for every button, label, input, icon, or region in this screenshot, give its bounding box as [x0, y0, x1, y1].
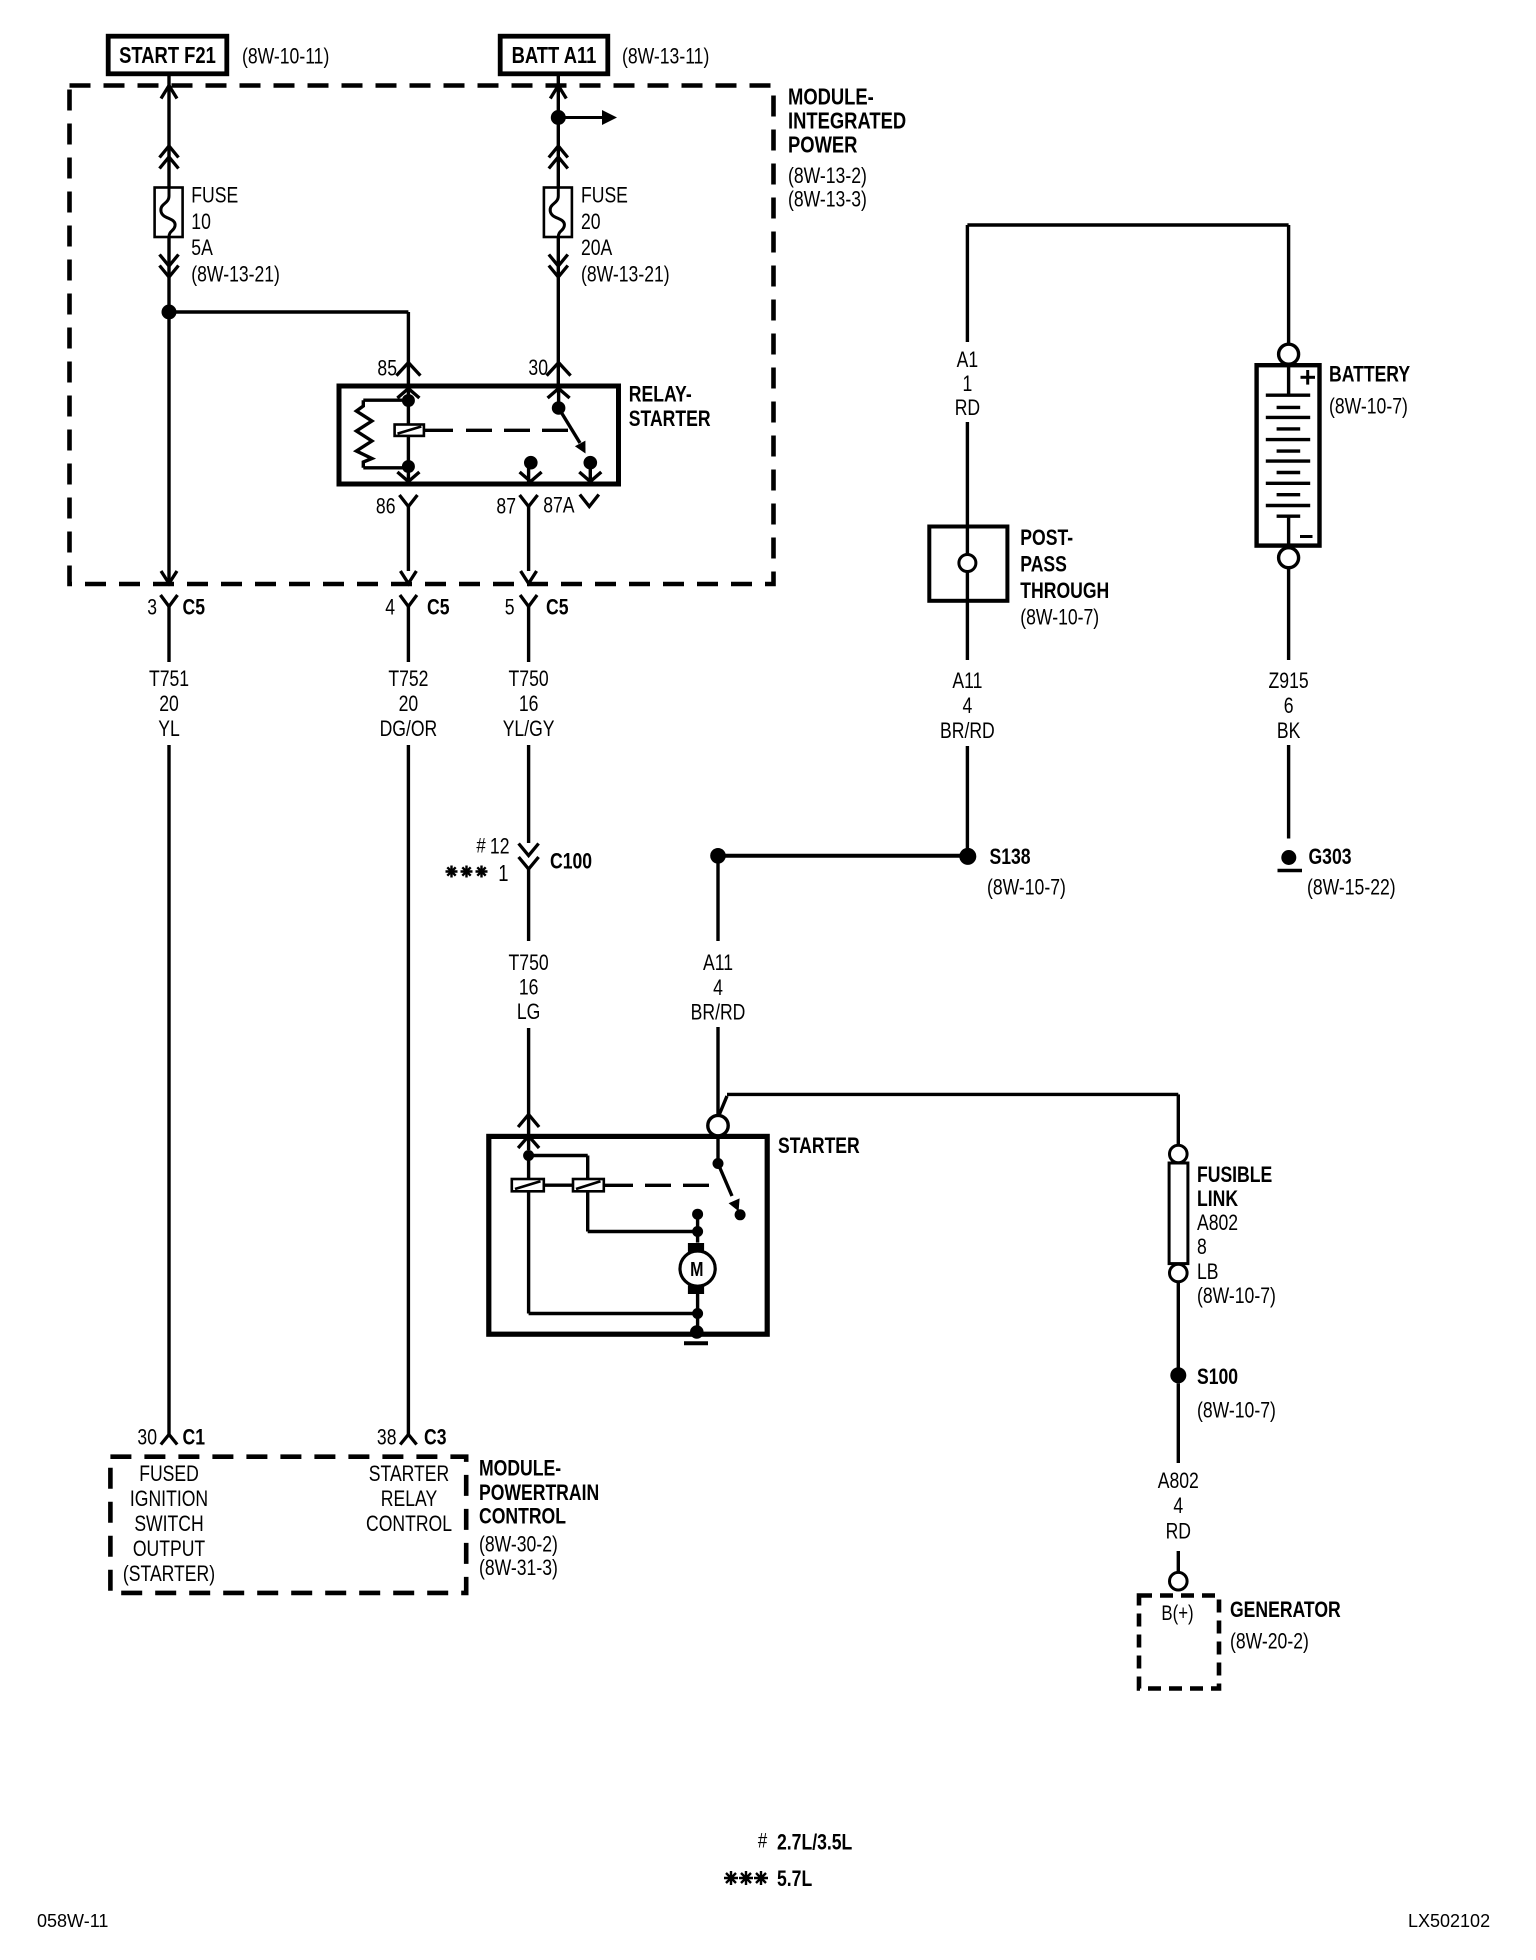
svg-text:POWERTRAIN: POWERTRAIN	[479, 1481, 599, 1505]
svg-text:(8W-13-2): (8W-13-2)	[788, 164, 867, 188]
svg-text:T751: T751	[149, 667, 189, 691]
svg-text:(STARTER): (STARTER)	[123, 1562, 215, 1586]
svg-text:C5: C5	[546, 596, 568, 620]
svg-text:DG/OR: DG/OR	[380, 717, 438, 741]
svg-text:STARTER: STARTER	[369, 1462, 449, 1486]
svg-text:C1: C1	[183, 1426, 205, 1450]
svg-text:1: 1	[963, 372, 973, 396]
svg-text:MODULE-: MODULE-	[788, 85, 874, 110]
svg-text:START F21: START F21	[119, 43, 216, 68]
svg-text:30: 30	[137, 1426, 157, 1450]
svg-text:(8W-13-3): (8W-13-3)	[788, 188, 867, 212]
svg-text:SWITCH: SWITCH	[134, 1512, 203, 1536]
svg-text:C5: C5	[183, 596, 205, 620]
svg-text:FUSE: FUSE	[191, 184, 238, 208]
svg-text:CONTROL: CONTROL	[366, 1512, 452, 1536]
svg-text:BATT A11: BATT A11	[512, 43, 597, 68]
svg-text:M: M	[690, 1259, 703, 1281]
svg-text:OUTPUT: OUTPUT	[133, 1537, 205, 1561]
svg-text:BR/RD: BR/RD	[940, 719, 995, 743]
svg-text:5.7L: 5.7L	[777, 1867, 812, 1891]
svg-text:87A: 87A	[543, 494, 575, 518]
svg-text:RELAY: RELAY	[381, 1487, 437, 1511]
svg-text:Z915: Z915	[1269, 669, 1309, 693]
svg-text:10: 10	[191, 210, 211, 234]
svg-text:FUSE: FUSE	[581, 184, 628, 208]
svg-text:STARTER: STARTER	[629, 407, 711, 431]
svg-text:PASS: PASS	[1020, 553, 1067, 577]
svg-text:16: 16	[519, 692, 539, 716]
svg-text:87: 87	[496, 495, 516, 519]
svg-text:5: 5	[505, 596, 515, 620]
svg-text:20: 20	[581, 210, 601, 234]
svg-text:B(+): B(+)	[1161, 1602, 1193, 1625]
svg-text:12: 12	[490, 835, 510, 859]
svg-text:LINK: LINK	[1197, 1187, 1239, 1211]
svg-text:85: 85	[377, 357, 397, 381]
svg-text:G303: G303	[1309, 845, 1352, 869]
svg-text:20A: 20A	[581, 236, 613, 260]
svg-text:YL: YL	[158, 717, 180, 741]
svg-text:IGNITION: IGNITION	[130, 1487, 208, 1511]
svg-text:30: 30	[528, 356, 548, 380]
svg-text:(8W-20-2): (8W-20-2)	[1230, 1630, 1309, 1654]
svg-text:T750: T750	[509, 951, 549, 975]
svg-text:S100: S100	[1197, 1365, 1238, 1389]
svg-text:CONTROL: CONTROL	[479, 1505, 566, 1529]
svg-text:20: 20	[159, 692, 179, 716]
svg-text:A11: A11	[952, 669, 982, 693]
svg-text:MODULE-: MODULE-	[479, 1457, 561, 1481]
svg-text:LX502102: LX502102	[1408, 1911, 1490, 1931]
svg-text:C3: C3	[424, 1426, 446, 1450]
svg-text:RELAY-: RELAY-	[629, 383, 692, 407]
svg-text:LB: LB	[1197, 1260, 1219, 1284]
svg-text:A802: A802	[1158, 1469, 1199, 1493]
svg-text:BK: BK	[1277, 719, 1301, 743]
svg-text:(8W-10-7): (8W-10-7)	[1020, 606, 1099, 630]
svg-text:BATTERY: BATTERY	[1329, 363, 1410, 387]
svg-text:POST-: POST-	[1020, 526, 1073, 550]
svg-text:THROUGH: THROUGH	[1020, 579, 1109, 603]
svg-text:RD: RD	[1166, 1520, 1191, 1544]
svg-text:#: #	[758, 1830, 768, 1853]
svg-text:4: 4	[385, 596, 395, 620]
svg-text:FUSED: FUSED	[139, 1462, 199, 1486]
svg-text:A802: A802	[1197, 1211, 1238, 1235]
svg-text:(8W-30-2): (8W-30-2)	[479, 1533, 558, 1557]
svg-text:(8W-10-7): (8W-10-7)	[1329, 395, 1408, 419]
svg-text:4: 4	[963, 694, 973, 718]
svg-text:BR/RD: BR/RD	[691, 1001, 746, 1025]
svg-text:20: 20	[399, 692, 419, 716]
svg-text:LG: LG	[517, 1000, 540, 1024]
svg-text:C5: C5	[427, 596, 449, 620]
svg-text:(8W-13-21): (8W-13-21)	[191, 263, 280, 287]
svg-text:INTEGRATED: INTEGRATED	[788, 109, 906, 134]
svg-text:C100: C100	[550, 850, 592, 874]
svg-text:(8W-10-7): (8W-10-7)	[1197, 1399, 1276, 1423]
svg-text:5A: 5A	[191, 236, 213, 260]
svg-text:POWER: POWER	[788, 132, 857, 157]
svg-text:38: 38	[377, 1426, 397, 1450]
svg-text:T750: T750	[509, 667, 549, 691]
svg-text:(8W-10-11): (8W-10-11)	[242, 45, 329, 69]
svg-text:(8W-10-7): (8W-10-7)	[1197, 1284, 1276, 1308]
svg-text:(8W-31-3): (8W-31-3)	[479, 1556, 558, 1580]
svg-text:2.7L/3.5L: 2.7L/3.5L	[777, 1831, 852, 1855]
svg-text:4: 4	[1173, 1494, 1183, 1518]
svg-text:S138: S138	[990, 845, 1031, 869]
svg-text:T752: T752	[388, 667, 428, 691]
svg-text:4: 4	[713, 976, 723, 1000]
svg-text:6: 6	[1284, 694, 1294, 718]
svg-text:(8W-15-22): (8W-15-22)	[1307, 876, 1396, 900]
svg-text:1: 1	[498, 861, 508, 886]
svg-text:(8W-13-11): (8W-13-11)	[622, 45, 709, 69]
svg-text:16: 16	[519, 976, 539, 1000]
svg-text:(8W-10-7): (8W-10-7)	[987, 876, 1066, 900]
svg-text:(8W-13-21): (8W-13-21)	[581, 263, 670, 287]
svg-text:#: #	[476, 835, 486, 858]
svg-text:86: 86	[376, 495, 396, 519]
svg-text:3: 3	[147, 596, 157, 620]
svg-text:FUSIBLE: FUSIBLE	[1197, 1163, 1272, 1187]
svg-text:8: 8	[1197, 1235, 1207, 1259]
svg-text:A1: A1	[957, 348, 979, 372]
svg-text:RD: RD	[955, 396, 980, 420]
svg-text:YL/GY: YL/GY	[503, 717, 555, 741]
svg-text:A11: A11	[703, 951, 733, 975]
svg-text:058W-11: 058W-11	[37, 1911, 108, 1931]
svg-text:STARTER: STARTER	[778, 1134, 860, 1158]
svg-text:GENERATOR: GENERATOR	[1230, 1598, 1341, 1622]
